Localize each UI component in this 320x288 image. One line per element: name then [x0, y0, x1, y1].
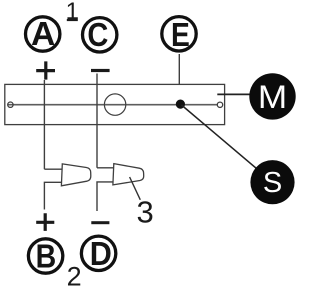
terminal C	[83, 18, 117, 52]
label M circle	[249, 73, 295, 119]
svg-text:B: B	[36, 237, 57, 274]
commutator ring circle	[104, 94, 125, 115]
wire A (left vertical through body)	[43, 80, 45, 169]
brush 2 top jog wire	[97, 167, 114, 169]
wire E (vertical from E to body)	[178, 54, 180, 84]
terminal A	[26, 17, 60, 51]
svg-text:S: S	[263, 167, 282, 199]
terminal D	[81, 236, 115, 270]
svg-text:1: 1	[66, 0, 79, 25]
brush 1 (left trapezoid)	[61, 164, 90, 186]
node junction dot	[176, 100, 185, 109]
svg-text:M: M	[258, 80, 287, 115]
armature shaft mid line	[8, 104, 218, 106]
svg-text:C: C	[87, 16, 108, 53]
left shaft terminal circle	[8, 102, 13, 107]
brush 2 bottom jog wire + wire to D	[97, 182, 113, 211]
brush 1 bottom jog wire + wire to B	[44, 182, 61, 209]
label S circle	[250, 160, 294, 204]
svg-text:3: 3	[136, 195, 153, 230]
plus sign top (A polarity)	[36, 61, 55, 79]
minus sign top (C polarity)	[91, 69, 110, 72]
leader line to label 3	[130, 177, 141, 200]
leader line to M	[217, 93, 250, 95]
svg-text:2: 2	[67, 262, 82, 288]
svg-text:E: E	[171, 16, 190, 54]
right shaft terminal circle	[217, 102, 222, 107]
leader line to S	[182, 105, 257, 169]
brush 1 top jog wire	[44, 168, 62, 170]
terminal B	[28, 239, 62, 273]
wire C (right vertical through body)	[96, 74, 98, 168]
brush 2 (right trapezoid)	[113, 164, 144, 185]
terminal E	[162, 17, 196, 51]
svg-text:D: D	[90, 235, 112, 272]
commutator body rectangle	[5, 84, 225, 124]
minus sign bottom (D polarity)	[91, 221, 109, 224]
svg-text:A: A	[31, 16, 55, 53]
plus sign bottom (B polarity)	[36, 213, 54, 231]
